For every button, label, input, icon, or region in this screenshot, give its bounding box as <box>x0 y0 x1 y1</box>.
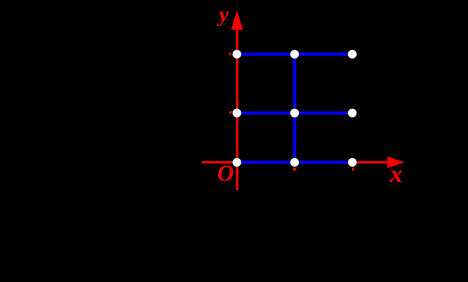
x-axis arrowhead <box>387 156 404 168</box>
tick y=1 <box>229 111 231 114</box>
dot (2,0) <box>348 158 357 167</box>
svg-text:x: x <box>389 161 403 188</box>
dot (2,1) <box>348 109 357 118</box>
dot (0,1) <box>233 109 242 118</box>
tick y=2 <box>229 53 231 56</box>
blue segment bottom row <box>237 161 352 164</box>
dot (1,0) <box>290 158 299 167</box>
dot (1,1) <box>290 109 299 118</box>
blue segment center column <box>293 54 296 162</box>
dot (0,2) <box>233 50 242 59</box>
blue segment top row <box>237 53 352 56</box>
tick x=2 <box>352 168 354 171</box>
y-axis <box>236 28 238 190</box>
tick x=1 <box>293 168 296 171</box>
svg-text:O: O <box>217 161 234 186</box>
dot origin (0,0) <box>233 158 242 167</box>
y-axis arrowhead <box>231 11 243 30</box>
x-axis <box>202 161 389 163</box>
blue segment middle row <box>237 112 352 115</box>
dot (2,2) <box>348 50 357 59</box>
dot (1,2) <box>290 50 299 59</box>
